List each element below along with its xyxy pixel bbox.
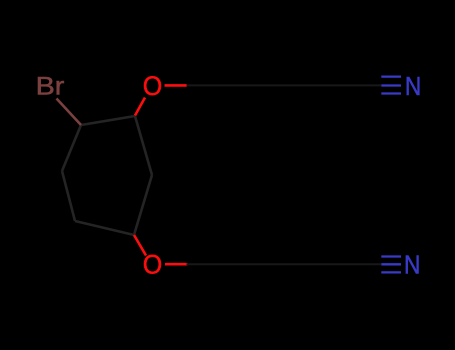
svg-text:N: N (405, 71, 421, 101)
wire ring bond V5-V6 (62, 171, 75, 221)
svg-text:Br: Br (36, 72, 65, 100)
triple bond C#N upper (381, 77, 401, 94)
wire ring bond V4-V5 (75, 221, 134, 235)
svg-text:N: N (404, 250, 420, 280)
bond O1-CH2 (165, 84, 187, 87)
svg-text:O: O (143, 249, 163, 280)
wire ring bond V6-V1 (62, 125, 81, 171)
wire ring bond V3-V4 (134, 175, 152, 235)
bond O1-ring (135, 98, 145, 116)
benzene ring (62, 116, 152, 235)
wire ring bond V1-V2 (81, 116, 135, 125)
bond O2-CH2 (165, 263, 188, 266)
wire chain lower CH2 to nitrile C (187, 263, 382, 265)
bond O2-ring (134, 235, 146, 256)
triple bond C#N lower (381, 257, 401, 273)
svg-text:O: O (143, 70, 163, 101)
wire chain upper CH2 to nitrile C (187, 84, 382, 86)
bond Br-C1 (57, 99, 82, 126)
wire ring bond V2-V3 (135, 116, 152, 175)
